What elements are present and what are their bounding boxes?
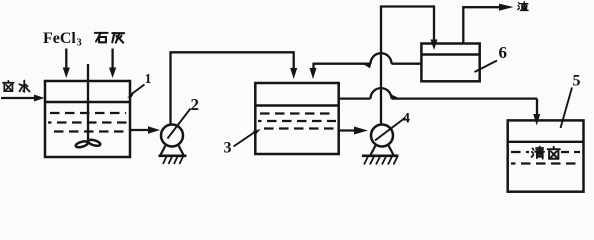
drop into filter 6: [433, 5, 435, 41]
filtrate return pipe from filter 6 into tank 3: [392, 63, 422, 65]
label 2: [191, 95, 200, 114]
leader 3: [234, 131, 258, 147]
leader 4: [375, 118, 406, 141]
label 4: [403, 111, 411, 127]
label 渣 (slag): [518, 2, 528, 11]
svg-text:6: 6: [499, 43, 508, 62]
top pipe to filter 6: [380, 5, 434, 7]
tank 5 (clear brine tank): [508, 120, 584, 191]
pump2 riser pipe: [169, 52, 171, 125]
tank 1 liquid level line: [45, 101, 130, 103]
tank 3 liquid dashes row 3: [260, 127, 335, 129]
label 清卤 (clear brine): [532, 147, 560, 159]
pump P2 circle: [161, 125, 183, 147]
slag arrowhead: [499, 4, 514, 11]
label 1: [145, 72, 152, 87]
pump P2 ground hatching: [163, 157, 183, 165]
tank 1 liquid dashes row 3: [50, 130, 126, 132]
label 卤水 (brine): [3, 81, 30, 92]
stirrer shaft: [87, 64, 89, 141]
pipe tank1 to pump2: [130, 129, 149, 131]
label 6: [499, 43, 508, 62]
label 5: [573, 73, 581, 90]
pipe pump2 to tank3 (top run): [169, 51, 293, 53]
slag pipe top run: [462, 6, 500, 8]
brine inlet pipe: [1, 97, 36, 99]
pump P4 ground hatching: [364, 157, 398, 165]
label 石灰 (lime): [95, 33, 124, 43]
tank 5 liquid dashes row 2: [511, 162, 580, 164]
svg-text:FeCl: FeCl: [43, 30, 76, 47]
pump P4 circle: [371, 125, 393, 147]
leader 2: [168, 109, 191, 139]
filtrate flow arrowhead (left): [363, 63, 372, 68]
overflow pipe right run: [392, 97, 538, 99]
tank 5 liquid level line: [508, 141, 584, 143]
overflow pipe drop into tank 5: [536, 99, 538, 115]
filter press 6 lid line: [421, 53, 479, 55]
tank 5 liquid dashes row 1 (split by text): [511, 151, 529, 153]
leader 5: [561, 88, 573, 129]
svg-text:5: 5: [573, 73, 581, 90]
slag pipe up from filter 6: [462, 7, 464, 43]
svg-text:3: 3: [224, 140, 232, 157]
label 3: [224, 140, 232, 157]
svg-text:2: 2: [191, 95, 200, 114]
pipe tank3 to pump4: [339, 129, 355, 131]
svg-text:1: 1: [145, 72, 152, 87]
stirrer impeller: [75, 140, 88, 148]
tank 3 liquid level line: [255, 104, 338, 106]
pump4 riser pipe: [380, 7, 382, 125]
svg-text:4: 4: [403, 111, 411, 127]
tank 1 (reaction tank): [45, 81, 130, 157]
pipe drop into tank 3: [293, 51, 295, 69]
tank 1 liquid dashes row 1: [50, 112, 126, 114]
leader 6: [475, 61, 498, 73]
overflow pipe tank3 to tank5: left run: [339, 97, 371, 99]
pump P4 pedestal: [371, 145, 394, 156]
filtrate pipe left run: [314, 63, 371, 65]
tank 3 liquid dashes row 1: [260, 112, 335, 114]
tank 3 (clarifier): [255, 83, 338, 154]
label FeCl3: [43, 30, 82, 49]
filtrate pipe jump over riser: [371, 53, 392, 63]
filtrate drop into tank 3: [312, 63, 314, 69]
overflow pipe jump over riser: [371, 88, 392, 99]
tank 1 liquid dashes row 2: [48, 121, 127, 123]
svg-text:3: 3: [77, 38, 82, 49]
feed arrow FeCl3: [65, 49, 67, 70]
filter press 6 body: [421, 44, 479, 82]
tank 3 liquid dashes row 2: [258, 120, 336, 122]
pump P2 pedestal: [161, 145, 184, 156]
overflow flow arrowhead (right): [392, 95, 400, 99]
feed arrow lime: [111, 49, 113, 70]
leader 1: [130, 85, 145, 96]
